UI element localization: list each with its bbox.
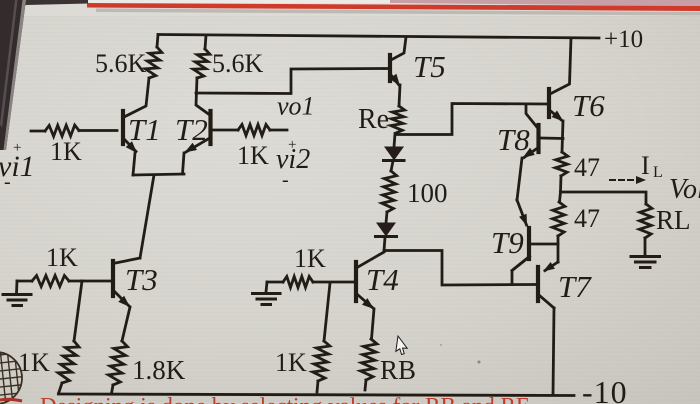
svg-text:1K: 1K bbox=[294, 244, 326, 273]
svg-text:L: L bbox=[653, 164, 663, 181]
ground T3 bbox=[3, 281, 31, 306]
wire T4 collector to T7 base bbox=[384, 251, 535, 286]
resistor 1K input vi2 bbox=[238, 125, 270, 136]
svg-text:100: 100 bbox=[407, 178, 448, 208]
wire drop to R1 bbox=[157, 35, 158, 48]
svg-text:T6: T6 bbox=[572, 88, 605, 123]
svg-text:vo1: vo1 bbox=[277, 92, 315, 121]
resistor 1K below T3 bbox=[58, 341, 79, 383]
wire R1 to T1 collector bbox=[125, 78, 149, 117]
wire +10 top rail bbox=[158, 35, 599, 39]
svg-text:47: 47 bbox=[574, 204, 600, 233]
resistor 47 lower bbox=[560, 192, 561, 202]
svg-text:47: 47 bbox=[574, 153, 600, 182]
white strip above red bar bbox=[87, 0, 420, 4]
wire R2 to T2 collector, node vo1 bbox=[196, 78, 211, 116]
gray line under red bar bbox=[96, 9, 700, 16]
wire T8 collector branch bbox=[526, 104, 537, 127]
resistor RL bbox=[639, 204, 652, 238]
wire T3 base node drop bbox=[74, 281, 82, 341]
transistor T4 bbox=[267, 252, 384, 339]
resistor 100 bbox=[382, 171, 397, 212]
svg-text:T3: T3 bbox=[125, 262, 158, 297]
wire output node to RL bbox=[561, 192, 647, 204]
IL dashed arrow bbox=[610, 179, 638, 181]
pink band top right bbox=[390, 0, 700, 6]
svg-text:T8: T8 bbox=[497, 122, 530, 157]
resistor 1K input left bbox=[45, 125, 79, 136]
resistor RB bbox=[361, 339, 378, 380]
svg-text:-: - bbox=[4, 171, 11, 193]
svg-text:5.6K: 5.6K bbox=[212, 49, 264, 78]
wire vo1 to T5 base bbox=[196, 69, 388, 94]
resistor 1K ground T4 bbox=[283, 277, 313, 288]
svg-text:T2: T2 bbox=[175, 112, 208, 147]
diode D2 bbox=[376, 212, 397, 251]
resistor 5.6K right bbox=[193, 49, 210, 78]
svg-text:1K: 1K bbox=[237, 141, 269, 170]
ground T4 bbox=[253, 282, 281, 305]
resistor 5.6K left bbox=[145, 47, 162, 78]
transistor T5 bbox=[390, 37, 407, 106]
svg-text:1K: 1K bbox=[18, 348, 50, 377]
transistor T2 bbox=[183, 111, 288, 174]
svg-text:T1: T1 bbox=[128, 112, 161, 147]
ground RL bbox=[631, 238, 660, 268]
resistor 1K ground T3 bbox=[32, 276, 69, 287]
wire T9 collector drop bbox=[512, 257, 530, 285]
svg-text:1K: 1K bbox=[46, 243, 78, 272]
transistor T1 bbox=[31, 111, 137, 175]
svg-text:RB: RB bbox=[380, 355, 416, 385]
red title bar bbox=[87, 3, 700, 11]
svg-text:T7: T7 bbox=[558, 269, 592, 304]
dark top edge wedge bbox=[0, 0, 88, 5]
transistor T7 bbox=[538, 262, 558, 395]
svg-text:-: - bbox=[282, 169, 289, 191]
svg-text:T5: T5 bbox=[413, 49, 446, 84]
resistor 1K below T4 bbox=[313, 341, 330, 381]
wire emitters common node bbox=[133, 174, 184, 175]
wire drop to R2 bbox=[205, 35, 206, 49]
mouse cursor bbox=[396, 336, 409, 355]
diode D1 bbox=[384, 134, 405, 172]
wire Re bottom to T6 base bbox=[396, 104, 547, 135]
svg-text:-10: -10 bbox=[582, 374, 628, 404]
svg-text:T4: T4 bbox=[366, 262, 399, 297]
transistor T8 bbox=[517, 125, 563, 200]
wire node to T3 collector bbox=[140, 175, 154, 258]
svg-text:I: I bbox=[641, 151, 650, 180]
svg-text:Vol: Vol bbox=[669, 174, 700, 205]
svg-text:Re: Re bbox=[358, 104, 389, 135]
svg-text:+10: +10 bbox=[604, 26, 643, 53]
wire -10 bottom rail bbox=[59, 394, 575, 396]
svg-text:1K: 1K bbox=[50, 137, 82, 166]
svg-text:T9: T9 bbox=[491, 225, 524, 260]
dark screen bezel top-left bbox=[0, 0, 26, 150]
small specks bbox=[478, 361, 481, 364]
wire T4 base node drop bbox=[324, 283, 330, 341]
svg-text:1.8K: 1.8K bbox=[132, 355, 186, 385]
svg-text:RL: RL bbox=[656, 205, 691, 235]
svg-text:5.6K: 5.6K bbox=[95, 49, 147, 78]
svg-text:1K: 1K bbox=[275, 348, 307, 377]
resistor 47 upper bbox=[555, 152, 568, 176]
resistor 1.8K bbox=[108, 341, 127, 385]
top slide margin light strip bbox=[20, 0, 700, 16]
resistor Re bbox=[391, 106, 405, 133]
transistor T6 bbox=[549, 38, 571, 152]
transistor T9 bbox=[512, 200, 558, 271]
transistor T3 bbox=[17, 258, 140, 341]
